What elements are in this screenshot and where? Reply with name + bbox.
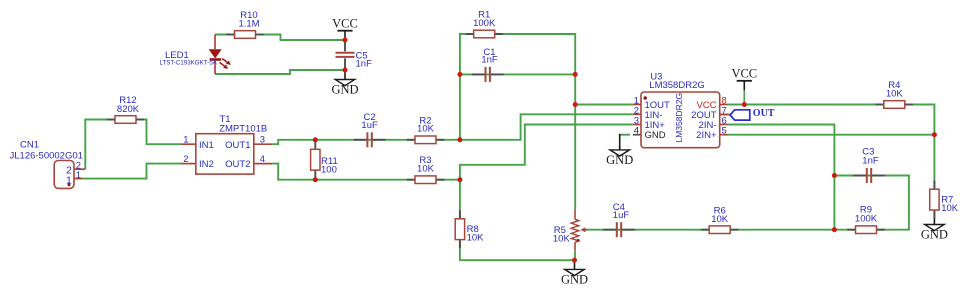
svg-text:GND: GND — [606, 153, 633, 167]
ground below R5 — [561, 260, 588, 286]
svg-text:LTST-C193KGKT-5A: LTST-C193KGKT-5A — [160, 60, 218, 67]
wire left vertical over R1 down right vertical to R5 top — [460, 34, 575, 210]
svg-text:100K: 100K — [473, 18, 496, 29]
wire C1 branch — [460, 73, 575, 75]
resistor R12 820K — [107, 95, 144, 123]
ground at U3 pin4 — [606, 146, 633, 167]
junction R9 left — [832, 227, 837, 232]
wire VCC stub to pin8 junction — [743, 90, 745, 104]
resistor R2 10K — [407, 115, 444, 143]
svg-text:100K: 100K — [855, 213, 878, 224]
wire T1 OUT1 to C2 to R2 to node — [272, 140, 460, 144]
svg-text:VCC: VCC — [731, 67, 757, 81]
wire 1OUT to feedback node — [575, 104, 633, 106]
junction C3 left — [832, 173, 837, 178]
svg-text:LM358DR2G: LM358DR2G — [674, 93, 684, 143]
junction R4 R7 2IN+ — [932, 132, 937, 137]
junction VCC pin8 — [742, 102, 747, 107]
LED LED1 LTST-C193KGKT-5A — [160, 35, 231, 75]
svg-text:10K: 10K — [467, 232, 485, 243]
wire LED anode to R10 to VCC net — [215, 35, 345, 41]
svg-text:4: 4 — [260, 154, 265, 165]
junction at VCC C5 — [343, 38, 348, 43]
junction C1 right — [573, 72, 578, 77]
svg-text:10K: 10K — [941, 203, 959, 214]
potentiometer R5 10K — [553, 210, 588, 261]
capacitor C5 1nF — [336, 40, 373, 70]
wire 2IN+ to R4 R7 junction — [728, 134, 934, 136]
resistor R9 100K — [847, 204, 884, 233]
svg-text:IN1: IN1 — [199, 140, 214, 151]
wire C3 R9 loop — [834, 176, 909, 230]
svg-text:2: 2 — [183, 154, 188, 165]
svg-text:1uF: 1uF — [613, 210, 630, 221]
power flag VCC at U3 pin8 — [731, 67, 757, 91]
junction R3 node — [457, 177, 462, 182]
wire T1 OUT2 to R3 to node — [272, 164, 460, 180]
svg-text:OUT2: OUT2 — [225, 159, 250, 170]
svg-text:10K: 10K — [417, 124, 435, 135]
svg-text:1nF: 1nF — [356, 59, 373, 70]
svg-text:GND: GND — [921, 228, 948, 242]
connector CN1 JL126-50002G01 — [10, 140, 86, 189]
svg-text:10K: 10K — [417, 164, 435, 175]
svg-text:OUT: OUT — [753, 108, 775, 119]
net flag OUT — [720, 108, 775, 120]
capacitor C2 1uF — [354, 112, 386, 147]
svg-text:1nF: 1nF — [862, 155, 879, 166]
svg-text:JL126-50002G01: JL126-50002G01 — [10, 151, 83, 162]
svg-text:1: 1 — [76, 170, 81, 181]
junction R11 top — [313, 137, 318, 142]
junction 1OUT — [573, 102, 578, 107]
wire 2IN- to C3 R9 node — [728, 125, 834, 230]
svg-text:10K: 10K — [553, 233, 571, 244]
svg-text:100: 100 — [321, 165, 337, 176]
svg-text:2IN+: 2IN+ — [696, 130, 717, 141]
svg-text:CN1: CN1 — [20, 140, 39, 151]
resistor R6 10K — [701, 205, 738, 233]
resistor R11 100 — [311, 141, 338, 179]
ground below C5 — [331, 70, 358, 97]
svg-text:GND: GND — [331, 83, 358, 97]
svg-text:GND: GND — [561, 273, 588, 287]
junction C1 left — [457, 72, 462, 77]
resistor R7 10K — [930, 181, 959, 219]
wire R2 node riser to 1IN- — [460, 114, 633, 140]
svg-text:LM358DR2G: LM358DR2G — [649, 80, 704, 91]
wire CN1 pin1 to T1 IN2 — [83, 164, 182, 179]
svg-text:3: 3 — [260, 135, 265, 146]
resistor R10 1.1M — [226, 10, 263, 38]
wire VCC pin8 to R4 down to R7 — [728, 105, 934, 219]
resistor R4 10K — [876, 80, 913, 108]
svg-text:1: 1 — [183, 135, 188, 146]
svg-text:1.1M: 1.1M — [238, 18, 259, 29]
wire CN1 pin2 to R12 to T1 IN1 — [85, 120, 181, 170]
svg-text:GND: GND — [645, 130, 666, 141]
svg-text:VCC: VCC — [332, 17, 358, 31]
svg-text:IN2: IN2 — [199, 159, 214, 170]
wire R3 node down through R8 to R5 bottom — [460, 180, 575, 261]
svg-text:820K: 820K — [117, 104, 140, 115]
capacitor C1 1nF — [472, 47, 504, 82]
junction R5 bottom — [572, 258, 577, 263]
capacitor C4 1uF — [603, 202, 635, 237]
wire U3 GND pin4 bend — [620, 134, 630, 136]
resistor R3 10K — [407, 155, 444, 183]
svg-text:5: 5 — [722, 126, 727, 137]
resistor R8 10K — [455, 210, 484, 248]
wire LED cathode to C5 bottom — [215, 70, 345, 74]
junction at C5 GND — [343, 68, 348, 73]
svg-text:ZMPT101B: ZMPT101B — [219, 124, 267, 135]
svg-text:10K: 10K — [711, 214, 729, 225]
capacitor C3 1nF — [853, 147, 885, 183]
svg-text:10K: 10K — [886, 89, 904, 100]
svg-text:1uF: 1uF — [361, 120, 378, 131]
svg-text:4: 4 — [634, 126, 639, 137]
svg-text:1nF: 1nF — [481, 55, 498, 66]
wire U3 pin4 drop — [619, 134, 621, 150]
junction R2 node — [457, 137, 462, 142]
op-amp U3 LM358DR2G — [633, 72, 728, 148]
power flag VCC above C5 — [332, 17, 358, 41]
resistor R1 100K — [466, 10, 503, 38]
transformer T1 ZMPT101B — [182, 114, 273, 174]
junction R11 bottom — [313, 177, 318, 182]
wire R3 node riser to 1IN+ — [460, 125, 633, 180]
wire R5 wiper to C4 to R6 to node — [586, 229, 834, 231]
svg-text:OUT1: OUT1 — [225, 140, 250, 151]
ground below R7 — [921, 219, 948, 242]
